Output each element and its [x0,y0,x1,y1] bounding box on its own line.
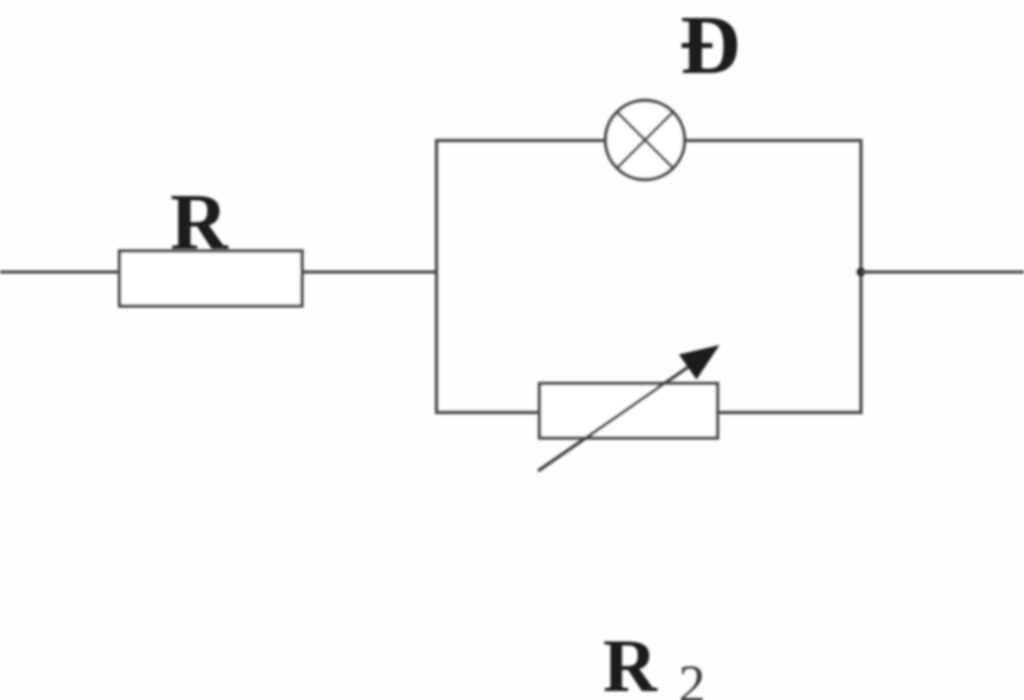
lamp D1 cross stroke 1 [617,112,673,168]
rheostat R2 arrow head [679,345,720,380]
rheostat R2 body [540,384,718,439]
rheostat R2 arrow shaft [538,363,694,471]
svg-text:R: R [170,179,229,267]
wire main right segment [861,270,1024,273]
wire main left segment [0,270,121,273]
svg-text:R: R [603,625,658,700]
lamp D1 cross stroke 2 [617,112,673,168]
svg-text:2: 2 [679,654,706,700]
wire middle segment to left branch node [301,270,438,273]
wire top branch left segment [435,139,606,142]
wire bottom branch right segment [716,411,863,414]
resistor R1 body [120,251,303,306]
wire top branch right segment [684,139,863,142]
wire right branch vertical [859,139,862,414]
svg-text:Đ: Đ [680,0,741,92]
node junction at right branch point [857,268,866,277]
wire bottom branch left segment [435,411,541,414]
lamp D1 circle [606,101,685,180]
wire left branch vertical [435,139,438,414]
